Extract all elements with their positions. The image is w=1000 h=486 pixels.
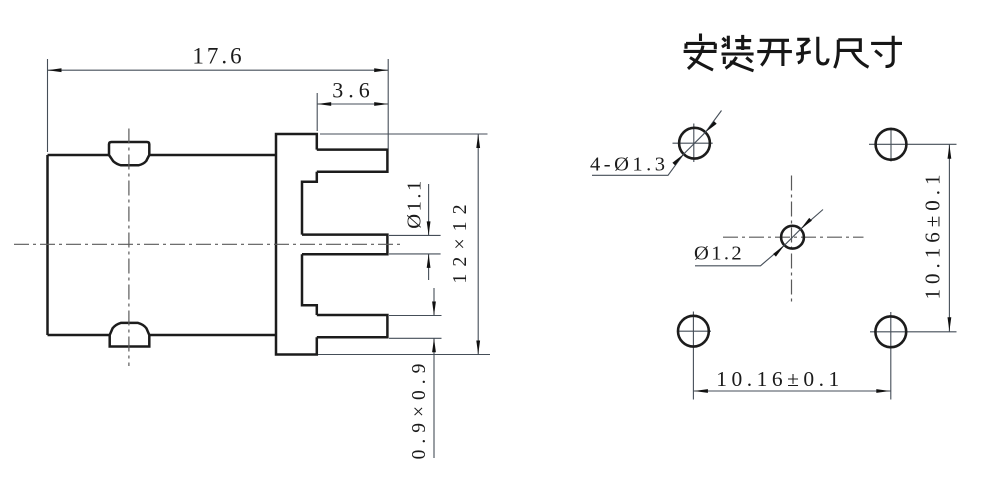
svg-text:10.16±0.1: 10.16±0.1 (716, 367, 844, 391)
bottom bayonet lug (110, 323, 150, 347)
crosshair hole BR + extensions (870, 312, 957, 400)
char 尺 (835, 40, 869, 68)
connector body top edge (48, 154, 277, 157)
leader Ø1.2 (695, 210, 823, 266)
top pin (317, 150, 388, 172)
hole BR (875, 316, 906, 347)
bottom pin (317, 315, 388, 337)
hole BL (678, 316, 709, 347)
dimension Ø1.1 (center pin) (389, 184, 441, 280)
crosshair hole TL (673, 124, 713, 163)
svg-text:Ø1.1: Ø1.1 (404, 178, 426, 228)
center hole centerlines (dash-dot) (723, 176, 864, 304)
char 装 (722, 35, 754, 71)
leader 4-Ø1.3 (592, 111, 722, 176)
svg-text:0.9×0.9: 0.9×0.9 (409, 358, 430, 460)
top bayonet lug (109, 142, 149, 165)
svg-text:12×12: 12×12 (449, 197, 471, 283)
lug vertical centerline (128, 129, 130, 367)
svg-text:4-Ø1.3: 4-Ø1.3 (590, 154, 669, 176)
svg-text:17.6: 17.6 (192, 44, 244, 69)
svg-text:10.16±0.1: 10.16±0.1 (921, 169, 945, 299)
dimension 3.6 (317, 93, 388, 131)
dimension 12×12 (flange) (318, 134, 490, 355)
horizontal centerline (14, 243, 402, 245)
flange outline (276, 134, 317, 355)
char 开 (757, 40, 792, 66)
char 孔 (796, 37, 828, 64)
connector body bottom edge (48, 334, 277, 337)
svg-text:Ø1.2: Ø1.2 (694, 243, 744, 265)
holes (678, 128, 906, 347)
crosshair hole BL + extension to bottom dim (677, 312, 711, 400)
vertical dimension 10.16±0.1 (948, 144, 950, 331)
char 寸 (871, 36, 902, 67)
svg-text:3.6: 3.6 (332, 78, 375, 103)
dimension 0.9×0.9 (bottom pin) (389, 288, 442, 458)
hole crosshairs (thin) (673, 124, 957, 400)
title 安装开孔尺寸 (drawn strokes) (684, 34, 902, 71)
hole TR (876, 129, 907, 160)
center hole (781, 226, 804, 249)
horizontal dimension 10.16±0.1 (693, 390, 890, 392)
char 安 (684, 34, 717, 71)
crosshair hole TR + extension to vertical dim (869, 128, 957, 162)
connector body left edge (46, 155, 49, 335)
dimension 17.6 (48, 59, 389, 152)
center pin (302, 235, 387, 255)
hole TL (679, 128, 710, 159)
